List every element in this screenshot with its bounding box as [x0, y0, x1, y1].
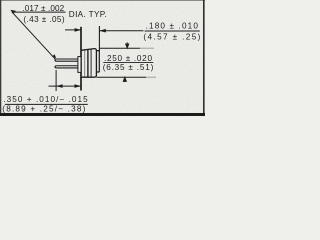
body inner line x87.7: [87, 50, 89, 77]
.250 bottom arrow (pointing up, tail below): [123, 77, 126, 82]
extension line x81 (body inner edge extended up and down): [80, 27, 82, 91]
body inner faint line x84.4: [84, 50, 86, 77]
fraction bar for .350 dimension: [5, 103, 88, 105]
fraction bar for .250 dimension: [103, 62, 153, 64]
svg-text:.250 ± .020: .250 ± .020: [104, 54, 152, 63]
svg-text:(4.57 ± .25): (4.57 ± .25): [143, 32, 200, 41]
lead seal box: [78, 57, 81, 73]
left extension line for .350 dimension: [55, 70, 57, 91]
border frame left: [0, 0, 1, 116]
top extension line for .250 dimension: [100, 47, 140, 49]
svg-text:DIA. TYP.: DIA. TYP.: [69, 10, 107, 19]
dimension line .180 left segment with arrow: [65, 29, 81, 31]
.350 right arrowhead: [75, 84, 81, 88]
dimension line .350: [49, 85, 82, 87]
border frame top: [0, 0, 205, 1]
fraction bar for .017 dimension: [12, 11, 66, 13]
.250 top arrow (outside, pointing down): [126, 42, 129, 48]
extension line x99.3 (nub right edge extended up): [98, 26, 100, 52]
lead 2 (bottom wire): [55, 66, 78, 68]
.350 left arrowhead: [56, 84, 62, 88]
adjustment nub on right: [96, 51, 99, 72]
bottom extension line for .250 dimension (body bottom extended): [96, 76, 146, 78]
svg-text:.350 + .010/− .015: .350 + .010/− .015: [3, 95, 88, 104]
body inner line x90.7: [90, 49, 92, 77]
svg-text:(.43 ± .05): (.43 ± .05): [23, 15, 64, 24]
leader line from .017 text to lead: [12, 12, 55, 59]
fraction bar for .180 dimension: [145, 30, 200, 32]
leader arrowhead at text end: [10, 10, 16, 14]
lead 1 (top wire): [55, 59, 78, 61]
svg-text:.180 ± .010: .180 ± .010: [146, 21, 199, 30]
trimmer main body outline: [81, 49, 96, 78]
svg-text:(8.89 + .25/− .38): (8.89 + .25/− .38): [2, 105, 85, 114]
border frame right: [203, 0, 205, 116]
border frame bottom: [0, 113, 205, 116]
svg-text:.017 ± .002: .017 ± .002: [22, 4, 64, 13]
leader end arrowhead at lead: [52, 54, 56, 58]
svg-text:(6.35 ± .51): (6.35 ± .51): [103, 63, 154, 72]
dimension line .180 right segment with arrow: [100, 30, 144, 32]
